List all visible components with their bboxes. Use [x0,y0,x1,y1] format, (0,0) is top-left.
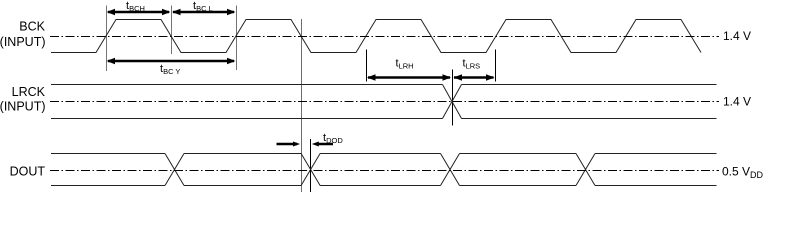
wire DOUT 0.5VDD threshold dash-dot [50,170,719,172]
tick T5 at LRCK transition x=452 [452,70,454,126]
tick T6 at BCK rising edge x=495.5 [495,50,497,82]
wire LRCK top rail right [462,84,717,86]
wire LRCK bottom rail right [462,118,717,120]
node BCK label [0,20,46,50]
svg-text:(INPUT): (INPUT) [0,100,46,114]
DOUT crossover X3 [441,154,460,186]
wire BCK 1.4V threshold dash-dot [50,36,719,38]
svg-text:DOUT: DOUT [10,165,46,179]
wire DOUT top rail segment 2 [184,153,301,155]
svg-text:(INPUT): (INPUT) [0,35,46,49]
node DOUT label [10,165,46,179]
wire DOUT bottom rail segment 1 [51,185,165,187]
wire DOUT top rail segment 3 [320,153,440,155]
tick T1 at BCK rising edge x=106 (gray) [106,6,108,72]
svg-text:1.4 V: 1.4 V [723,29,751,43]
arrow tBCY [107,58,236,65]
wire DOUT top rail segment 1 [51,153,165,155]
cursor line at BCK falling edge x=301 down to DOUT (gray) [301,19,303,192]
arrow tDOD left [277,142,301,147]
tick T7 at DOUT transition x=310.6 [310,139,312,192]
arrow tBCL [172,9,236,16]
tick T2 at BCK falling edge x=171 (gray) [171,6,173,55]
DOUT crossover X2 [301,154,320,186]
wire DOUT bottom rail segment 2 [184,185,301,187]
svg-text:1.4 V: 1.4 V [723,95,751,109]
tick T3 at BCK rising edge x=236 (gray) [236,6,238,71]
LRCK crossover rising [443,85,462,119]
wire LRCK top rail left [51,84,443,86]
wire DOUT bottom rail segment 3 [320,185,440,187]
svg-text:BCK: BCK [19,20,45,34]
arrow tBCH [107,9,171,16]
arrow tDOD right [312,142,333,147]
svg-text:LRCK: LRCK [12,85,46,99]
wire LRCK bottom rail left [51,118,443,120]
arrow tLRH [367,74,451,81]
LRCK crossover falling [443,85,462,119]
wire LRCK 1.4V threshold dash-dot [50,101,719,103]
wire BCK waveform [51,20,701,53]
wire DOUT bottom rail segment 5 [595,185,717,187]
DOUT crossover X1 [165,154,184,186]
tick T4 at BCK rising edge x=366 [366,50,368,82]
DOUT crossover X4 [576,154,595,186]
wire DOUT top rail segment 5 [595,153,717,155]
node LRCK label [0,85,46,114]
wire DOUT top rail segment 4 [460,153,577,155]
arrow tLRS [454,74,495,81]
wire DOUT bottom rail segment 4 [460,185,577,187]
